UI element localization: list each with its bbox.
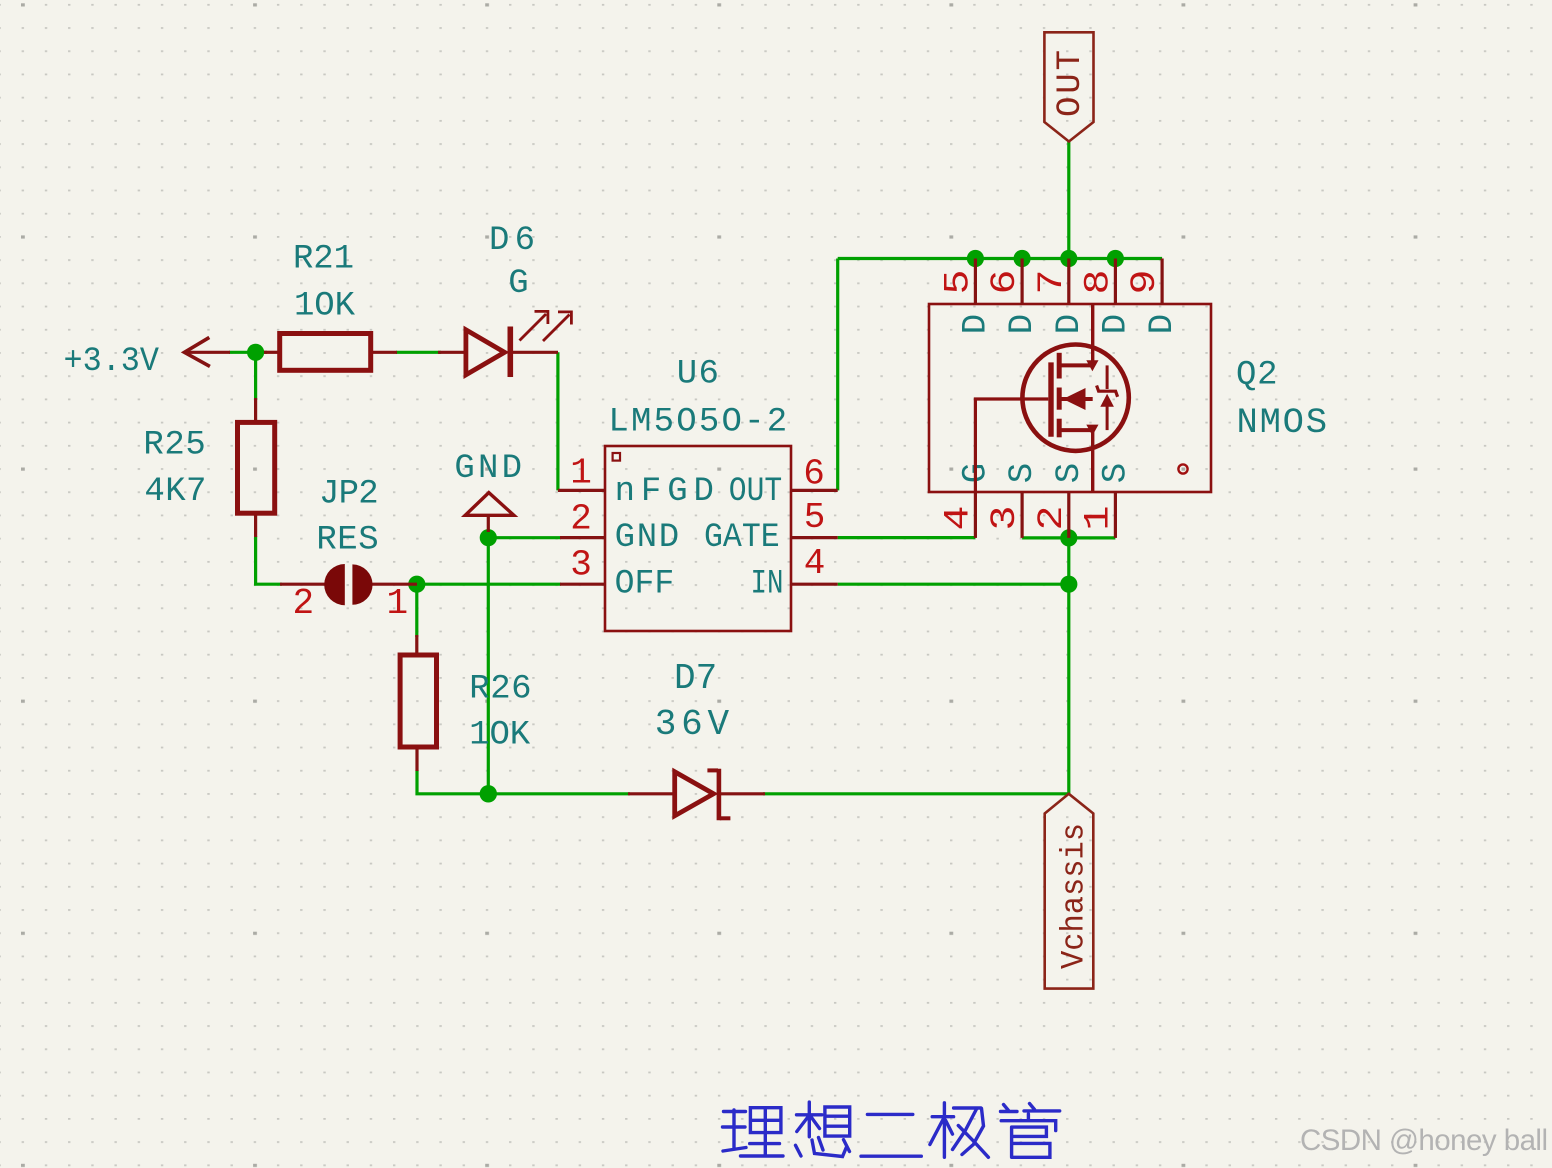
resistor R25 xyxy=(143,398,274,537)
svg-text:G: G xyxy=(508,265,528,303)
U6 pin 2 GND xyxy=(560,499,679,558)
svg-text:9: 9 xyxy=(1125,270,1165,295)
wire GND vertical down xyxy=(487,531,490,794)
resistor R26 xyxy=(400,635,531,771)
svg-text:1OK: 1OK xyxy=(294,288,356,326)
svg-text:S: S xyxy=(1051,463,1089,483)
svg-text:JP2: JP2 xyxy=(319,476,379,514)
svg-text:Vchassis: Vchassis xyxy=(1056,823,1093,969)
svg-text:Q2: Q2 xyxy=(1236,357,1278,395)
svg-text:OUT: OUT xyxy=(1052,50,1090,117)
U6 pin 1 nFGD xyxy=(558,453,714,512)
Q2 pin 5 D xyxy=(939,259,996,335)
svg-text:D: D xyxy=(1144,314,1182,334)
zener diode D7 xyxy=(628,658,765,820)
svg-text:R21: R21 xyxy=(293,241,354,279)
svg-text:+3.3V: +3.3V xyxy=(64,343,160,381)
svg-text:4: 4 xyxy=(804,543,826,584)
junction at +3.3V node xyxy=(247,344,264,361)
Q2 pin 7 D xyxy=(1032,259,1089,335)
svg-text:U6: U6 xyxy=(677,356,719,394)
svg-text:CSDN @honey ball: CSDN @honey ball xyxy=(1300,1124,1548,1157)
op-amp U6 LM5050-2 body xyxy=(605,356,791,632)
wire R25 bottom to JP2 row xyxy=(256,536,282,584)
ground symbol GND xyxy=(454,450,522,532)
LED D6 xyxy=(438,222,571,377)
junction top bus pin6 xyxy=(1014,250,1031,267)
svg-text:4K7: 4K7 xyxy=(144,473,206,511)
wire U6 OUT up left riser xyxy=(836,259,839,491)
svg-text:3: 3 xyxy=(570,545,592,586)
junction source bottom xyxy=(1060,529,1077,546)
wire +3.3V junction down to R25 xyxy=(254,352,257,400)
svg-text:D7: D7 xyxy=(674,658,717,699)
svg-text:GND: GND xyxy=(615,519,680,557)
svg-text:5: 5 xyxy=(939,270,979,295)
jumper JP2 xyxy=(280,476,417,625)
svg-text:R25: R25 xyxy=(143,427,205,465)
svg-text:5: 5 xyxy=(804,497,826,538)
svg-text:3: 3 xyxy=(985,506,1025,531)
transistor Q2 body xyxy=(929,304,1327,492)
Q2 MOSFET symbol xyxy=(975,304,1128,492)
junction top bus pin8 xyxy=(1107,250,1124,267)
junction IN node xyxy=(1060,576,1077,593)
svg-text:GND: GND xyxy=(454,450,522,488)
svg-text:OFF: OFF xyxy=(615,565,675,603)
svg-text:6: 6 xyxy=(985,270,1025,295)
svg-text:4: 4 xyxy=(939,506,979,531)
wire Q2 source down to Vchassis xyxy=(1067,538,1070,794)
wire D7 cathode to Vchassis corner xyxy=(763,792,1069,795)
junction at OFF node xyxy=(408,576,425,593)
svg-text:36V: 36V xyxy=(655,704,730,745)
wire D6 cathode down to U6 pin1 xyxy=(556,352,559,490)
svg-text:D: D xyxy=(958,314,996,334)
Q2 pin 1 S xyxy=(1079,463,1136,538)
svg-text:1: 1 xyxy=(387,583,409,624)
Q2 pin 4 G xyxy=(939,463,996,538)
svg-text:2: 2 xyxy=(570,499,592,540)
svg-text:8: 8 xyxy=(1079,270,1119,295)
svg-text:R26: R26 xyxy=(469,671,531,709)
resistor R21 xyxy=(264,241,397,371)
svg-text:6: 6 xyxy=(803,454,825,495)
hierarchical label Vchassis xyxy=(1045,794,1094,989)
svg-text:GATE: GATE xyxy=(704,519,780,557)
Q2 pin 8 D xyxy=(1079,259,1136,335)
wire R21 to D6 xyxy=(396,351,441,354)
Q2 pin 2 S xyxy=(1032,463,1089,538)
svg-text:S: S xyxy=(1004,463,1042,483)
svg-text:1: 1 xyxy=(1079,506,1119,531)
hierarchical label OUT xyxy=(1044,32,1093,141)
svg-text:RES: RES xyxy=(316,522,378,560)
svg-text:IN: IN xyxy=(751,565,784,603)
U6 pin 5 GATE xyxy=(704,497,838,557)
U6 pin 4 IN xyxy=(751,543,838,603)
svg-text:NMOS: NMOS xyxy=(1237,402,1328,443)
wire net +3.3V horizontal xyxy=(229,351,267,354)
svg-text:1: 1 xyxy=(570,453,592,494)
wire top OUT bus xyxy=(838,257,1162,260)
U6 pin 6 OUT xyxy=(729,454,838,512)
power symbol +3.3V xyxy=(64,337,231,381)
wire OUT label stem xyxy=(1067,142,1070,259)
title text (Chinese) xyxy=(723,1102,1060,1157)
wire GND junction to U6 pin2 xyxy=(488,536,561,539)
wire junction down to R26 xyxy=(415,584,418,637)
svg-text:S: S xyxy=(1098,463,1136,483)
U6 pin 3 OFF xyxy=(560,545,674,604)
wire U6 GATE to Q2 gate pin xyxy=(838,536,976,539)
wire U6 IN to source net xyxy=(838,583,1069,586)
Q2 pin 3 S xyxy=(985,463,1042,538)
wire R26 bottom to D7 xyxy=(417,770,630,794)
junction at GND node xyxy=(480,529,497,546)
svg-text:D: D xyxy=(1051,314,1089,334)
wire Q2 sources bottom xyxy=(1022,536,1115,539)
Q2 pin 6 D xyxy=(985,259,1042,335)
junction top bus pin7 xyxy=(1060,250,1077,267)
watermark xyxy=(1300,1124,1548,1157)
svg-text:2: 2 xyxy=(1032,506,1072,531)
svg-text:D: D xyxy=(1098,314,1136,334)
svg-text:OUT: OUT xyxy=(729,473,782,511)
junction at D7 node xyxy=(480,785,497,802)
svg-text:7: 7 xyxy=(1032,270,1072,295)
svg-text:1OK: 1OK xyxy=(469,717,530,755)
svg-text:D: D xyxy=(1004,314,1042,334)
wire JP2 pin1 to U6 OFF xyxy=(417,583,561,586)
Q2 pin 9 D xyxy=(1125,259,1182,335)
svg-text:2: 2 xyxy=(293,583,315,624)
junction top bus pin5 xyxy=(967,250,984,267)
